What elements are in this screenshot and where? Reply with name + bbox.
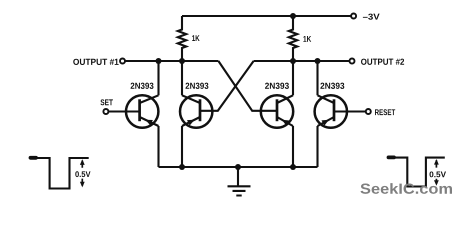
label 0.5V (right) xyxy=(430,171,446,177)
label Q4 2N393 xyxy=(320,83,344,89)
wire: Q4 emitter lead xyxy=(316,126,318,167)
label R1 1K xyxy=(192,35,199,41)
transistor Q3 2N393 xyxy=(261,95,293,127)
transistor Q4 2N393 xyxy=(315,95,347,127)
wire: cross-couple OUTPUT#2 rail to Q2 base xyxy=(200,61,254,111)
label R2 1K xyxy=(303,36,311,42)
junction: R1 / Q2 collector to rail xyxy=(179,58,185,64)
junction: Q4 collector to rail xyxy=(315,58,321,64)
junction: R2 / Q3 collector to rail xyxy=(290,58,296,64)
wire: emitter ground rail xyxy=(159,166,318,168)
terminal RESET xyxy=(366,109,371,114)
resistor R1 1K (left) xyxy=(178,16,186,61)
label Q3 2N393 xyxy=(265,83,289,89)
wire: Q1 emitter lead xyxy=(157,126,159,167)
junction: Q1 collector to rail xyxy=(156,58,162,64)
label RESET xyxy=(375,109,395,115)
dimension arrow 0.5V (right) xyxy=(435,160,437,184)
label SET xyxy=(100,99,112,105)
wire: OUTPUT #1 rail xyxy=(125,60,218,62)
label 0.5V (left) xyxy=(75,171,90,177)
junction: Q3 emitter to rail xyxy=(290,164,296,170)
wire: Q3 emitter lead xyxy=(292,126,294,167)
terminal -3V xyxy=(351,14,356,19)
resistor R2 1K (right) xyxy=(289,16,297,61)
terminal OUTPUT #2 xyxy=(350,59,355,64)
label Q2 2N393 xyxy=(185,83,208,89)
wire: Q2 emitter lead xyxy=(181,126,183,167)
label OUTPUT #1 xyxy=(73,59,118,65)
wire: -3V supply rail xyxy=(182,15,351,17)
wire: Q4 collector lead xyxy=(316,61,318,95)
transistor Q2 2N393 xyxy=(180,95,212,127)
wire: Q2 collector lead xyxy=(181,61,183,95)
terminal SET xyxy=(103,109,108,114)
label watermark SeekIC.com xyxy=(360,183,452,194)
terminal OUTPUT #1 xyxy=(120,59,125,64)
wire: cross-couple OUTPUT#1 rail to Q3 base xyxy=(218,61,277,111)
label OUTPUT #2 xyxy=(361,59,404,65)
junction: Q2 emitter to rail xyxy=(179,164,185,170)
ground xyxy=(228,167,251,196)
waveform: SET input pulse xyxy=(35,158,89,189)
label Q1 2N393 xyxy=(131,83,154,89)
wire: Q1 collector lead xyxy=(157,61,159,95)
wire: OUTPUT #2 rail xyxy=(254,60,350,62)
junction: ground tap xyxy=(235,164,241,170)
dimension arrow 0.5V (left) xyxy=(81,161,83,186)
wire: Q4 base to RESET terminal xyxy=(334,110,366,112)
wire: Q3 collector lead xyxy=(292,61,294,95)
waveform start blob xyxy=(31,156,37,160)
transistor Q1 2N393 xyxy=(126,95,159,127)
wire: SET terminal to Q1 base xyxy=(108,110,139,112)
label -3V xyxy=(363,14,380,20)
waveform: RESET input pulse xyxy=(394,158,445,187)
waveform start blob xyxy=(389,155,395,159)
junction: R2 top to rail xyxy=(290,13,296,19)
